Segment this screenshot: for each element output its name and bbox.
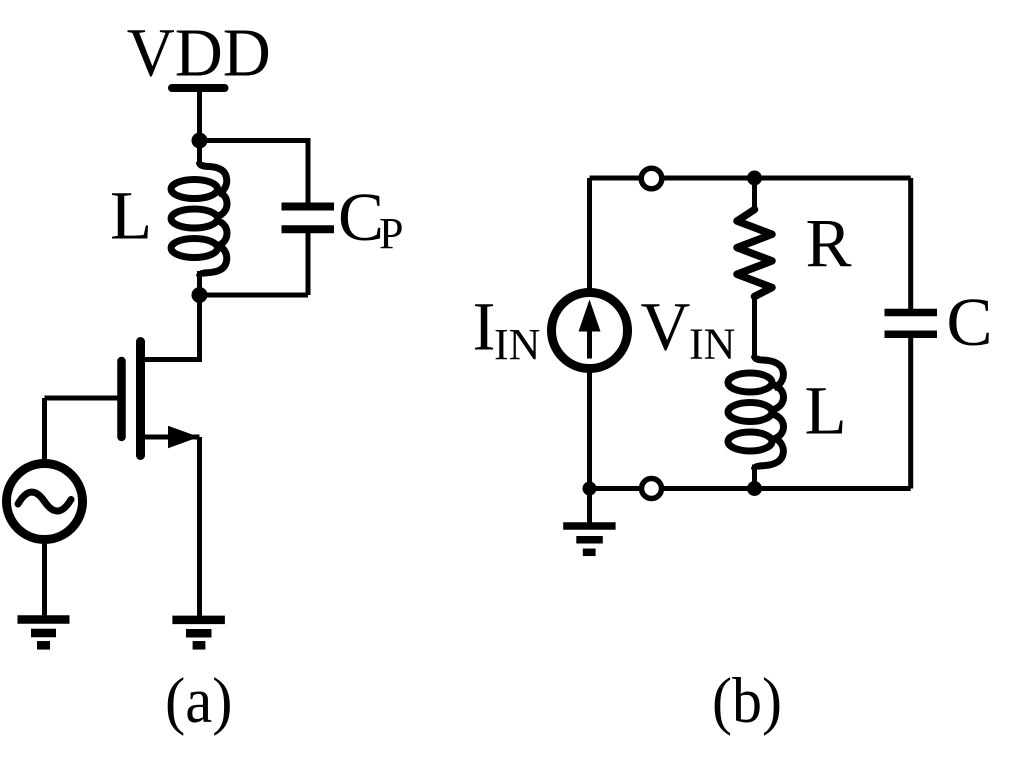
current source IIN arrow head — [579, 300, 601, 332]
node C (top mid) — [747, 171, 762, 186]
wire left branch top vertical — [587, 178, 592, 294]
VDD supply bar — [172, 84, 225, 92]
capacitor C bottom plate — [885, 330, 938, 338]
svg-text:L: L — [805, 372, 847, 448]
inductor L (panel a) — [171, 162, 227, 277]
open terminal (top) — [641, 168, 662, 189]
svg-text:P: P — [379, 209, 403, 258]
transistor M1 channel bar — [136, 342, 145, 456]
svg-text:IN: IN — [689, 320, 735, 369]
ground symbol (panel b) — [563, 526, 615, 552]
wire drain horizontal — [141, 357, 202, 362]
node D (bottom left) — [583, 482, 597, 496]
wire AC source bottom vertical — [42, 537, 47, 616]
svg-text:IN: IN — [494, 320, 540, 369]
wire right branch top vertical — [908, 178, 913, 310]
wire Cp branch bottom vertical — [306, 233, 311, 295]
svg-text:C: C — [947, 284, 993, 360]
resistor R — [737, 210, 772, 297]
wire node A to inductor entry — [197, 141, 202, 165]
ground symbol (below M1 source) — [172, 620, 225, 645]
open terminal (bottom) — [642, 479, 662, 499]
wire right branch bottom vertical — [908, 338, 913, 489]
svg-text:V: V — [641, 289, 691, 365]
wire bottom rail — [590, 486, 911, 491]
capacitor CP bottom plate — [282, 225, 335, 233]
wire VDD bar to node A — [197, 88, 202, 141]
wire ground stub — [587, 489, 592, 524]
wire resistor to inductor — [752, 297, 757, 359]
wire inductor to node E — [752, 465, 757, 489]
current source IIN arrow shaft — [587, 325, 592, 359]
svg-text:L: L — [110, 177, 152, 253]
current source IIN circle — [552, 293, 628, 369]
capacitor CP top plate — [282, 203, 335, 211]
wire gate horizontal — [45, 396, 119, 401]
wire source vertical to ground — [197, 437, 202, 616]
svg-text:VDD: VDD — [127, 15, 271, 91]
wire source horizontal — [141, 435, 200, 440]
svg-text:R: R — [806, 206, 852, 282]
wire node C to resistor — [752, 178, 757, 211]
node B (drain bottom node) — [192, 287, 208, 303]
svg-text:C: C — [338, 179, 384, 255]
svg-text:(b): (b) — [712, 665, 782, 737]
wire Cp branch to node B (bottom) — [200, 293, 309, 298]
node E (bottom mid) — [747, 481, 762, 496]
ground symbol (below AC source) — [18, 620, 70, 646]
AC source V1 circle — [7, 464, 83, 540]
node A (drain top node) — [192, 133, 208, 149]
wire inductor exit to node B — [197, 271, 202, 295]
transistor M1 source arrow — [168, 426, 199, 449]
svg-text:I: I — [473, 288, 496, 364]
capacitor C top plate — [885, 309, 938, 317]
wire top rail — [590, 176, 911, 181]
AC source V1 sine wave — [18, 492, 71, 511]
inductor L (panel b) — [728, 356, 784, 470]
wire node A to Cp branch (top) — [200, 138, 309, 143]
transistor M1 gate bar — [117, 361, 126, 437]
wire node B down to drain corner — [197, 295, 202, 362]
wire AC source top vertical — [42, 398, 47, 466]
wire Cp branch top vertical — [306, 138, 311, 203]
wire left branch bottom vertical — [587, 367, 592, 489]
svg-text:(a): (a) — [165, 665, 233, 737]
